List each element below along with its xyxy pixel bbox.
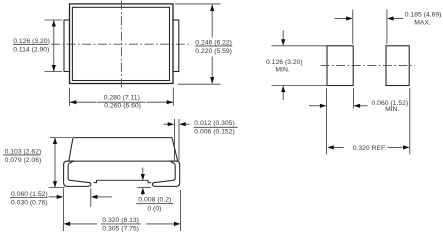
dim tab-width left: dimension line with arrows: [53, 20, 55, 72]
body shoulder line: [69, 160, 178, 162]
svg-text:0.246 (6.22): 0.246 (6.22): [195, 39, 232, 46]
svg-text:0.079 (2.06): 0.079 (2.06): [5, 157, 42, 164]
svg-text:0.030 (0.76): 0.030 (0.76): [11, 200, 48, 207]
dim body-height right: dimension line with arrows: [211, 5, 213, 38]
dim foot-length: extension line inner: [90, 188, 92, 207]
dim overall width: right extension: [180, 190, 182, 231]
right terminal tab: [173, 20, 179, 72]
dim standoff: arrows: [142, 168, 144, 175]
svg-text:0.126 (3.20): 0.126 (3.20): [266, 59, 303, 66]
left terminal tab: [64, 20, 70, 72]
dim pad gap: extension lines: [352, 9, 354, 44]
body outer outline: [70, 4, 174, 84]
dim body-width bottom: dimension line with arrows: [70, 101, 96, 103]
svg-text:0.320 (8.13): 0.320 (8.13): [102, 217, 139, 224]
dim overall-height left: extension lines: [50, 137, 72, 139]
svg-text:0.008 (0.2): 0.008 (0.2): [138, 197, 171, 204]
right lead (J-bend): [152, 161, 179, 186]
label 0.103/0.079: [5, 149, 42, 164]
svg-text:0.012 (0.305): 0.012 (0.305): [194, 120, 234, 127]
label 0.320 REF: [353, 145, 387, 152]
svg-text:0.320 REF.: 0.320 REF.: [353, 145, 387, 152]
svg-text:MAX.: MAX.: [414, 19, 431, 26]
dim body-width bottom: extension lines: [69, 88, 71, 106]
svg-text:MIN.: MIN.: [275, 67, 289, 74]
label 0.060/0.030: [11, 191, 48, 206]
dim lead-thickness: extension lines: [173, 119, 175, 161]
body top edge: [73, 137, 172, 139]
left lead (J-bend): [64, 161, 91, 186]
label 0.012/0.006: [194, 120, 234, 135]
label 0.320/0.305: [102, 217, 139, 233]
label 0.060 MIN: [372, 100, 409, 113]
body bottom edge between leads: [93, 180, 151, 182]
svg-text:0.260 (6.60): 0.260 (6.60): [104, 103, 141, 110]
dim foot-length: arrows: [49, 196, 58, 198]
svg-text:0.114 (2.90): 0.114 (2.90): [13, 46, 49, 53]
dim foot-length: left extension (shared with overall width): [62, 188, 64, 231]
dim pad width: extension lines: [326, 88, 328, 154]
right pad: [386, 46, 409, 86]
svg-text:0.103 (2.62): 0.103 (2.62): [5, 149, 42, 156]
dim pattern span: right extension: [409, 88, 411, 154]
dim overall width: dimension line with arrows: [70, 223, 97, 225]
dim standoff: seating plane line: [137, 186, 151, 188]
pads centerline: [321, 64, 415, 66]
vertical centerline: [120, 1, 122, 90]
dim pad height: arrows: [282, 31, 284, 40]
svg-text:MIN.: MIN.: [385, 106, 399, 113]
svg-text:0.220 (5.59): 0.220 (5.59): [195, 48, 232, 55]
body left slanted side: [69, 138, 73, 162]
dim pad height: extension lines: [272, 45, 328, 47]
horizontal centerline: [51, 43, 191, 45]
body inner outline: [72, 7, 169, 80]
dim lead-thickness: arrows: [164, 123, 169, 125]
svg-text:0.060 (1.52): 0.060 (1.52): [11, 191, 48, 198]
dim pad width: arrows: [309, 105, 320, 107]
dim overall-height left: dimension line with arrows: [54, 138, 56, 188]
label 0.008/0: [138, 197, 171, 213]
label 0.280/0.260: [104, 95, 141, 110]
label 0.126/0.114: [13, 38, 50, 53]
left pad: [327, 46, 353, 86]
dim body-height right: extension lines: [175, 3, 221, 5]
label 0.246/0.220: [195, 39, 232, 55]
dim tab-width left: extension lines: [45, 19, 63, 21]
svg-text:0.305 (7.75): 0.305 (7.75): [102, 226, 139, 233]
svg-text:0 (0): 0 (0): [147, 206, 161, 213]
svg-text:0.185 (4.69): 0.185 (4.69): [405, 11, 442, 18]
svg-text:0.006 (0.152): 0.006 (0.152): [194, 128, 234, 135]
dim pad gap: arrows: [335, 18, 347, 20]
label 0.126 MIN: [266, 59, 303, 74]
body right slanted side: [172, 138, 178, 162]
svg-text:0.280 (7.11): 0.280 (7.11): [104, 95, 140, 102]
label 0.185 MAX: [405, 11, 442, 26]
dim pattern span: arrows: [334, 146, 344, 148]
